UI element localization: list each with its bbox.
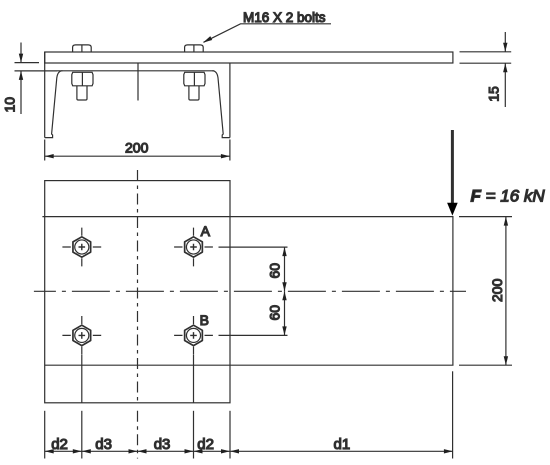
bracket outline (plan view) <box>45 181 230 403</box>
extension line at bracket right edge <box>229 411 231 459</box>
dim 15 (beam plate thickness, right) <box>460 32 512 107</box>
svg-text:A: A <box>201 223 211 239</box>
bolt 1 nut (side view) <box>72 72 93 86</box>
bolt 1 head (side view) <box>73 45 92 52</box>
svg-text:10: 10 <box>2 97 18 113</box>
dim 60 upper (bolt A row to centerline) <box>219 247 288 291</box>
beam plate (plan view) <box>42 217 453 366</box>
svg-text:d3: d3 <box>95 436 112 453</box>
arrowheads of bottom dimensions <box>45 449 453 453</box>
svg-text:60: 60 <box>266 305 282 321</box>
svg-text:d1: d1 <box>334 436 351 453</box>
beam plate (side view, 15 thick) <box>45 52 453 63</box>
bolt hole top-left <box>62 228 101 267</box>
svg-text:15: 15 <box>486 86 502 102</box>
extension line at bolt column 1 <box>81 355 83 459</box>
bottom dimension line d2-d3-d3-d2-d1 <box>45 450 453 452</box>
bracket flange underside line (side view) <box>57 70 214 72</box>
bracket right leg (side view) <box>212 63 230 138</box>
horizontal centerline <box>34 290 466 292</box>
bolt hole B (bottom-right) <box>174 316 213 355</box>
force arrow F <box>447 130 458 216</box>
bolt 1 shank (side view) <box>77 86 87 100</box>
svg-text:M16 X 2 bolts: M16 X 2 bolts <box>243 10 326 25</box>
svg-text:F = 16 kN: F = 16 kN <box>471 187 546 206</box>
side-view vertical center mark <box>137 63 139 101</box>
dim 10 (flange thickness, left) <box>2 43 58 115</box>
bolt 2 head (side view) <box>185 45 204 52</box>
svg-text:d2: d2 <box>51 436 68 453</box>
bolt 2 shank (side view) <box>189 86 199 100</box>
dim 200 (plan view beam width) <box>459 217 512 366</box>
svg-text:d2: d2 <box>197 436 214 453</box>
bolt 2 nut (side view) <box>184 72 205 86</box>
bracket left leg (side view) <box>45 52 63 138</box>
svg-text:B: B <box>200 312 209 328</box>
dim 200 (side view bracket width) <box>45 140 230 161</box>
extension line at beam right edge <box>452 371 454 458</box>
svg-text:d3: d3 <box>154 436 171 453</box>
dim 60 lower (centerline to bolt B row) <box>219 291 288 335</box>
bolt hole bottom-left <box>62 316 101 355</box>
leader line to bolt 2 head <box>203 24 331 43</box>
extension line at bracket left edge <box>44 411 46 459</box>
svg-text:60: 60 <box>266 263 282 279</box>
vertical centerline <box>137 170 139 403</box>
extension line at bolt column 2 <box>193 355 195 459</box>
svg-text:200: 200 <box>125 140 149 156</box>
bolt hole A (top-right) <box>174 228 213 267</box>
svg-text:200: 200 <box>489 278 505 302</box>
